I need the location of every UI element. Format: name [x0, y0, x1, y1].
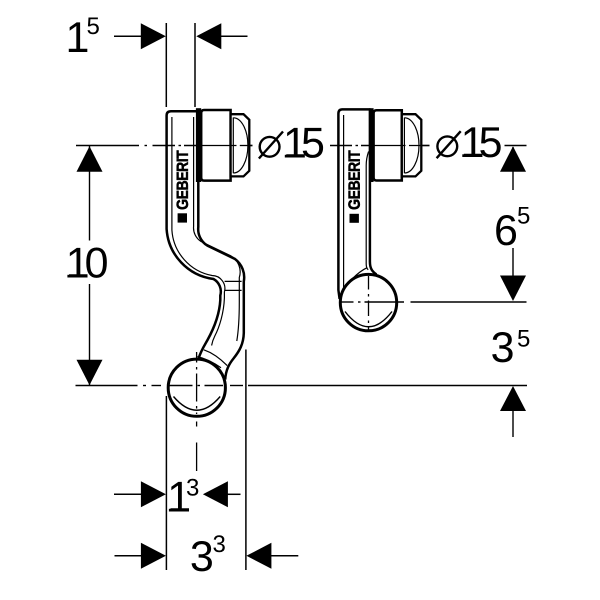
dim 1.5 arrow left (points right) [114, 23, 166, 49]
dim 6.5 vertical line upper [512, 147, 514, 190]
dim 3.3 arrow left (points right) [115, 543, 166, 569]
bottom extension line x=166.4 [165, 396, 167, 570]
extension line right of dim 1.5 [194, 23, 196, 107]
right tube inner wall line left [343, 115, 345, 292]
dim label 3.5 [492, 330, 529, 362]
dim label 3.3 [192, 535, 225, 571]
dim 6.5 arrow down [500, 276, 526, 302]
left socket joint line upper [225, 280, 242, 282]
dim 1.5 arrow right (points left) [196, 23, 247, 49]
left tube inner wall line left [172, 117, 225, 346]
left socket shoulder line lower [197, 357, 221, 368]
dim label 10 [67, 247, 106, 277]
dim 1.3 arrow right (points left) [203, 481, 241, 507]
centerline across right fitting [374, 145, 430, 147]
right tube inner wall line right [366, 152, 368, 270]
left GEBERIT logo text [177, 150, 188, 209]
left socket shoulder line upper [204, 350, 227, 366]
dia 15 label right: phi symbol [437, 131, 461, 158]
right fitting cylinder [374, 110, 402, 180]
right socket shoulder line [340, 268, 367, 296]
dia 15 label right: text 15 [462, 127, 500, 157]
dim label 1.5 [69, 17, 99, 52]
dim 3.3 arrow right (points left) [246, 543, 298, 569]
right socket lip arc [345, 312, 392, 327]
right fitting bar [369, 108, 373, 182]
left circle vertical centerline [196, 352, 198, 427]
right tube outline [338, 109, 376, 299]
long bottom reference line y=385.5 [76, 385, 528, 387]
dim 1.3 arrow left (points right) [114, 481, 166, 507]
extension line left of dim 1.5 [165, 23, 167, 107]
right nut chamfer arcs [405, 118, 420, 173]
dim 6.5 arrow up [500, 146, 526, 172]
dim label 6.5 [496, 207, 529, 245]
dim label 1.3 [169, 479, 198, 512]
dim 3.5 arrow up below line [500, 386, 526, 437]
dim 10 arrow up [77, 146, 103, 172]
dia 15 label left: text 15 [285, 128, 323, 158]
bottom extension line x=245.9 [245, 350, 247, 571]
left tube outline top and left edge [167, 111, 221, 358]
left tube inner wall line right [194, 117, 241, 341]
left socket joint line lower [225, 289, 242, 291]
right GEBERIT logo text [348, 150, 359, 209]
left GEBERIT logo square [178, 213, 187, 222]
right socket circle [340, 274, 396, 330]
right fitting nut [402, 114, 422, 176]
dia 15 label left: phi symbol [259, 132, 283, 159]
right nut facet line [403, 118, 405, 174]
dim 10 vertical line [89, 146, 91, 241]
centerline of fittings y=145.5 [76, 145, 527, 147]
left fitting bar [196, 108, 201, 182]
centerline across left fitting [202, 145, 253, 147]
right circle vertical centerline [368, 276, 370, 331]
bottom extension line x=196.6 [196, 443, 198, 472]
left tube outline right edge [198, 111, 244, 380]
left fitting cylinder [201, 110, 230, 181]
left nut facet line [232, 118, 234, 174]
dim 6.5 vertical line lower [512, 248, 514, 276]
left socket circle [168, 359, 225, 416]
right GEBERIT logo square [350, 214, 359, 223]
left socket lip arc [174, 397, 221, 411]
left nut chamfer arcs [233, 118, 248, 173]
dim 10 arrow down [77, 360, 103, 386]
right circle horizontal centerline [341, 301, 527, 303]
left fitting nut [231, 114, 250, 176]
